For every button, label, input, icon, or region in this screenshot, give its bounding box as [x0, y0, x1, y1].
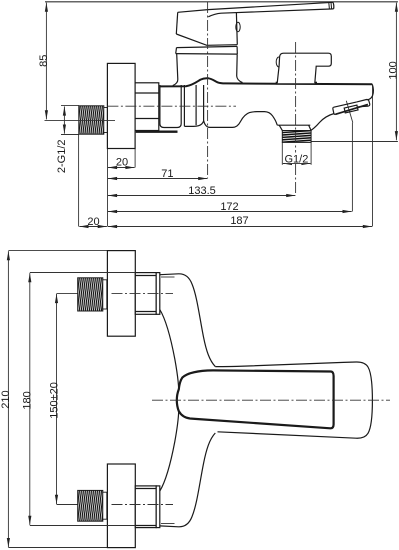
- svg-text:71: 71: [161, 168, 173, 180]
- svg-text:150±20: 150±20: [49, 382, 61, 419]
- svg-text:180: 180: [21, 391, 33, 409]
- svg-text:133.5: 133.5: [188, 185, 216, 197]
- svg-text:210: 210: [0, 390, 12, 408]
- svg-text:20: 20: [87, 216, 99, 228]
- svg-text:172: 172: [220, 201, 238, 213]
- svg-text:100: 100: [388, 61, 399, 79]
- svg-text:G1/2: G1/2: [284, 153, 308, 165]
- svg-text:85: 85: [38, 55, 50, 67]
- svg-text:187: 187: [230, 215, 248, 227]
- svg-text:20: 20: [116, 156, 128, 168]
- svg-text:2-G1/2: 2-G1/2: [56, 139, 68, 173]
